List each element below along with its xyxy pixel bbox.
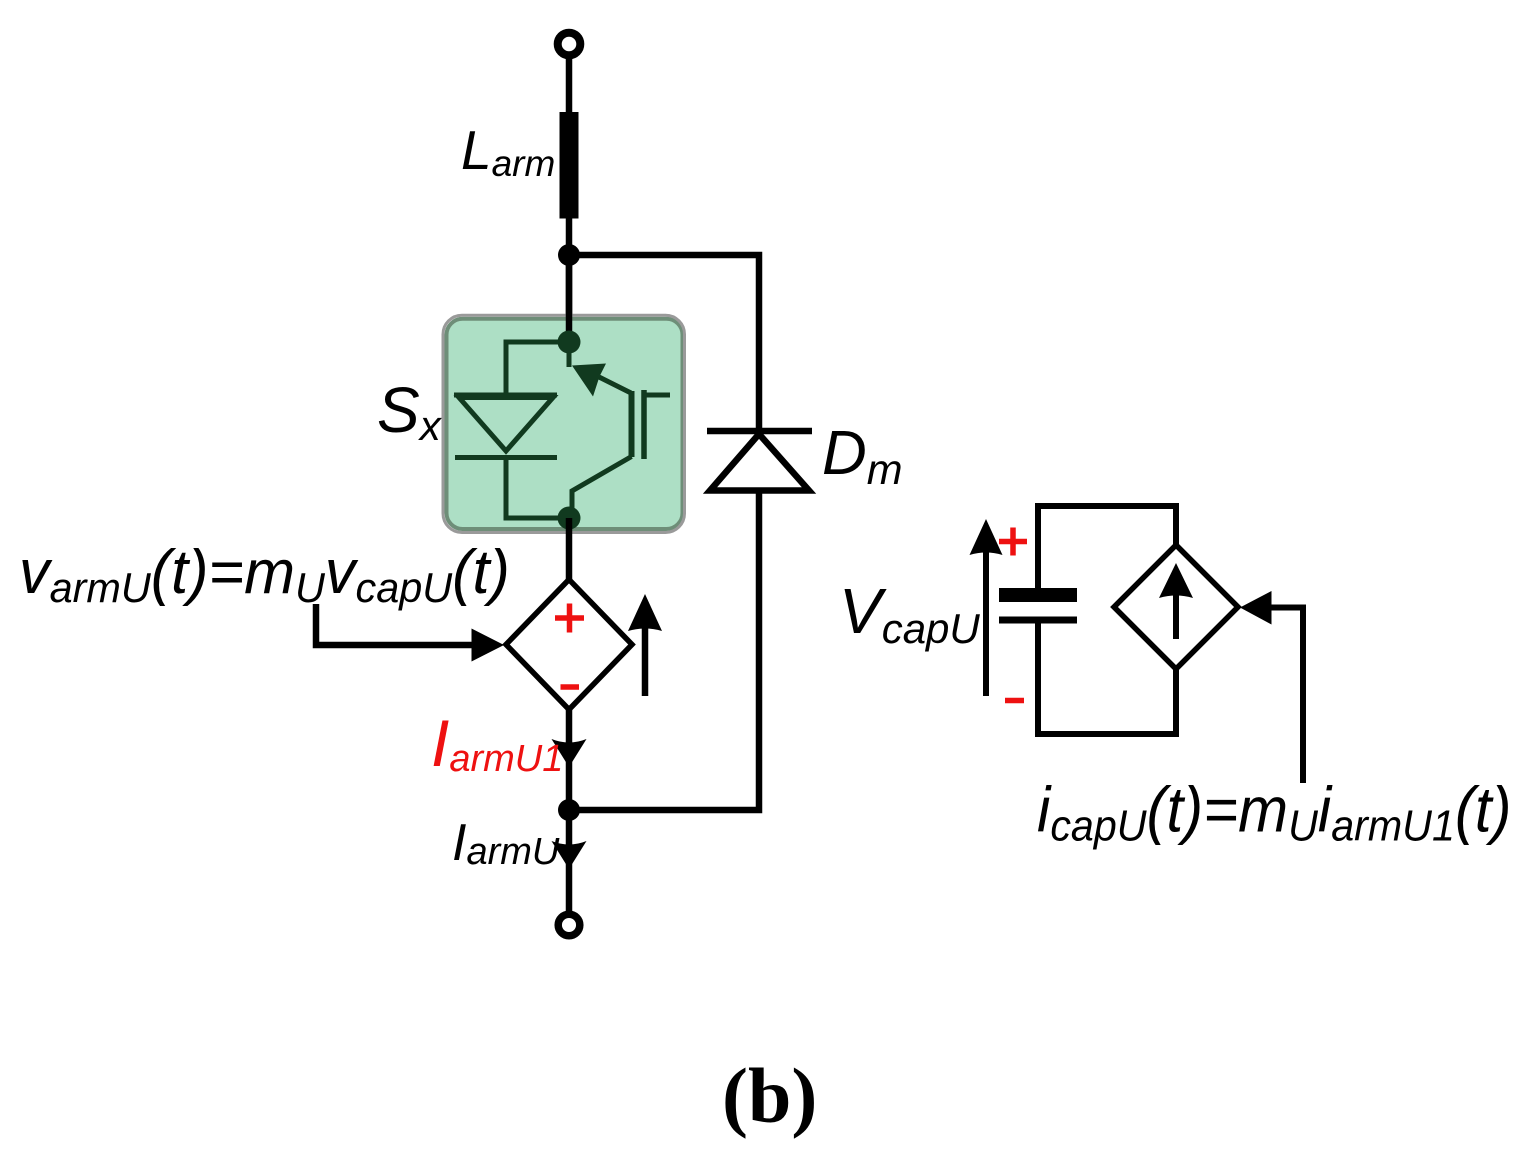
current source arrow [1173, 585, 1179, 639]
terminal (bottom) [558, 914, 580, 936]
svg-text:(b): (b) [722, 1052, 817, 1139]
switch cell Sx (green box) [447, 319, 683, 529]
transistor Q1 gate lead [644, 393, 670, 398]
minus sign (red, capacitor) [1005, 698, 1024, 704]
wire top terminal to inductor [566, 58, 573, 114]
node B (junction dot) [558, 799, 580, 821]
diode D1 triangle [459, 398, 553, 452]
transistor Q1 collector diagonal [599, 377, 631, 393]
wire into box top [566, 255, 573, 342]
dependent current source (diamond) [1114, 545, 1238, 669]
transistor Q1 collector arrowhead [572, 364, 606, 397]
wire diode cathode to node bottom [506, 458, 569, 519]
dependent voltage source E1 (diamond) [506, 580, 632, 710]
label v_armU(t)=m_Uv_capU(t) [19, 538, 510, 611]
diode Dm triangle [710, 434, 809, 491]
plus sign (red) [555, 604, 584, 633]
up arrow beside source [642, 625, 649, 696]
control arrow into source [316, 604, 476, 645]
node bottom inside Sx [558, 507, 581, 530]
node A (junction dot) [558, 244, 580, 266]
control arrow into current source [1240, 591, 1272, 625]
wire node B to bottom terminal with arrowhead I_armU [566, 810, 573, 911]
transistor Q1 collector stub [567, 342, 572, 367]
diode Dm lower wire [569, 492, 759, 810]
capacitor loop wires [1038, 506, 1176, 588]
capacitor C bottom plate [999, 617, 1077, 624]
inductor L_arm [560, 112, 579, 219]
plus sign (red, capacitor) [999, 528, 1027, 556]
wire inductor to node A [566, 218, 573, 318]
minus sign (red) [561, 684, 580, 690]
terminal (top) [558, 33, 581, 56]
diode Dm cathode bar [707, 428, 812, 435]
wire source to node B with current arrowhead I_armU1 [566, 709, 573, 810]
wire box bottom to source [566, 518, 573, 583]
label i_capU(t)=m_Ui_armU1(t) [1037, 775, 1511, 851]
transistor Q1 gate bar [641, 390, 647, 459]
V_capU polarity arrow [983, 550, 989, 696]
wire node A to Dm branch (top) [569, 255, 759, 431]
transistor Q1 emitter [572, 457, 632, 519]
wire node to diode anode [506, 342, 569, 394]
node top inside Sx [558, 331, 581, 354]
transistor Q1 channel bar [629, 391, 635, 457]
diode D1 cathode bar [455, 455, 557, 460]
capacitor C top plate [999, 588, 1077, 602]
diode D1 (inside Sx) anode bar [454, 393, 557, 398]
